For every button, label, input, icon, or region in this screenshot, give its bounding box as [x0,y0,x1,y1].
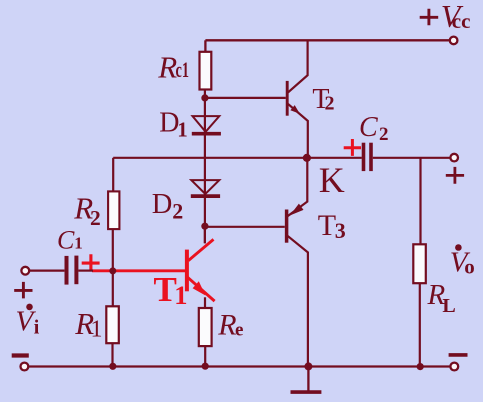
wire diode chain vertical [204,90,206,244]
wire T1 base red [92,269,185,272]
diode D2 [191,180,220,196]
polarity plus C2 [344,139,361,156]
svg-text:T: T [318,209,336,242]
wire C1 to node [78,270,93,272]
node Re bottom [202,363,209,370]
wire K row [113,157,362,159]
label Re [217,308,243,341]
svg-text:D: D [152,189,173,220]
wire Re bottom [204,346,206,366]
terminal Vcc [450,37,458,45]
wire input [29,270,64,272]
svg-text:R: R [157,49,177,84]
svg-text:c1: c1 [176,57,190,82]
diode D1 [192,116,221,134]
label T1 [154,270,188,310]
svg-text:1: 1 [174,280,187,310]
label minus output [449,353,468,357]
label C1 [57,226,83,255]
svg-text:o: o [464,255,475,279]
node T3 collector bottom [304,362,312,370]
label +Vcc [420,0,471,34]
label C2 [359,112,389,145]
svg-text:C: C [359,112,378,143]
label D1 [159,108,188,142]
wire T2 base [205,97,286,99]
svg-text:2: 2 [90,206,101,230]
resistor R2 [108,191,119,229]
wire R1 bottom [111,343,113,366]
svg-text:e: e [235,320,243,341]
wire T1 collector link [204,226,206,243]
node R1 bottom [109,363,116,370]
node junction below Rc1 [201,94,208,101]
label RL [427,279,456,317]
polarity plus output [446,167,464,184]
svg-text:C: C [57,226,75,255]
node K [303,154,311,162]
transistor T3 [287,158,308,367]
svg-text:2: 2 [379,124,389,145]
resistor RL [413,244,426,283]
transistor T1 [187,239,215,301]
wire T3 base [205,226,285,228]
svg-text:2: 2 [172,199,183,224]
label minus input [12,353,29,357]
wire RL branch [419,158,421,245]
wire R1 top [112,271,114,306]
node base divider [109,267,116,274]
svg-text:cc: cc [452,9,471,33]
input terminal top [21,267,29,275]
svg-text:1: 1 [74,234,83,253]
svg-text:3: 3 [335,218,346,243]
wire RL bottom [419,283,421,366]
label T2 [312,84,334,115]
capacitor C1 [67,256,77,285]
svg-text:i: i [34,316,40,338]
svg-text:R: R [217,308,236,341]
transistor T2 [287,40,308,158]
label D2 [152,189,184,224]
wire bottom rail [28,365,450,367]
label plus input [14,282,32,299]
label Vi [16,304,40,339]
wire Rc1 top [204,40,206,52]
label Rc1 [157,49,189,84]
resistor Rc1 [200,52,212,90]
capacitor C2 [364,143,372,171]
ground [291,367,322,393]
resistor Re [199,308,212,346]
label Vo [450,244,475,278]
svg-text:2: 2 [325,93,335,115]
node junction below D2 [201,223,208,230]
label T3 [318,209,346,243]
wire R2 bottom [112,229,114,271]
polarity plus C1 [82,254,100,271]
node RL bottom [417,363,424,370]
wire T1 emitter link [204,297,206,308]
svg-text:L: L [442,295,455,317]
input terminal bottom [21,363,29,371]
svg-text:K: K [319,160,345,200]
label R1 [74,306,102,343]
wire C2 to output [373,157,450,159]
wire R2 top [112,158,114,192]
svg-text:1: 1 [177,118,188,142]
terminal output top [450,154,458,162]
wire top rail Vcc [205,39,449,41]
resistor R1 [106,306,119,343]
label R2 [73,190,101,230]
output terminal bottom [450,363,458,371]
svg-text:1: 1 [91,316,103,342]
